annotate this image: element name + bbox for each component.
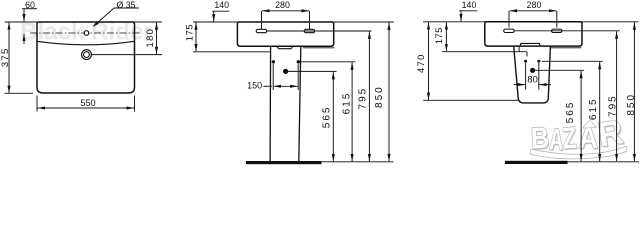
- dim 140 R: [459, 10, 477, 12]
- dim 60 down arrow: [23, 9, 25, 22]
- dim 795 M: [368, 32, 370, 162]
- dim 615 M: [351, 62, 353, 161]
- dim 550 ext lines: [37, 96, 135, 112]
- fixing dot left R: [524, 60, 527, 63]
- dim 850 M: [388, 23, 390, 162]
- basin outline L: [37, 22, 135, 93]
- dim 280 M: [262, 10, 309, 12]
- dot line ext (615): [298, 61, 355, 63]
- drain dot R: [530, 68, 535, 73]
- top rim ext line left R: [423, 21, 485, 23]
- dim 550: [38, 107, 135, 109]
- floor bar M: [246, 161, 322, 164]
- dim 375: [8, 22, 10, 93]
- dim 280 ext lines M: [262, 11, 310, 29]
- dim 80 ext lines R: [526, 63, 539, 90]
- basin body R: [485, 22, 582, 46]
- dim 150: [263, 85, 272, 87]
- bowl underside line (175 ext) R: [442, 51, 527, 53]
- bowl underside line right: [303, 47, 335, 49]
- top rim ext line right: [334, 21, 394, 23]
- svg-text:795: 795: [608, 94, 619, 117]
- drain recess R: [520, 43, 540, 46]
- svg-text:850: 850: [626, 93, 637, 116]
- fixing dot right M: [297, 60, 300, 63]
- dim 850 R: [633, 22, 635, 161]
- bowl underside right R: [550, 47, 581, 49]
- overflow ext line (180 bottom): [92, 54, 163, 56]
- basin rim curve L: [37, 41, 135, 45]
- svg-text:175: 175: [434, 27, 444, 44]
- svg-text:60: 60: [25, 0, 35, 10]
- fixing slot left R: [504, 29, 515, 32]
- top rim ext line left: [193, 21, 237, 23]
- dim 565 M: [332, 72, 334, 161]
- svg-text:B: B: [530, 120, 550, 155]
- dim 80 R: [514, 84, 525, 86]
- svg-text:565: 565: [321, 106, 332, 129]
- drain dot M: [283, 69, 288, 74]
- floor bar R: [505, 161, 568, 164]
- fixing slot right M: [304, 29, 315, 32]
- pedestal left edge: [269, 46, 272, 161]
- floor line R: [568, 161, 640, 163]
- drain notch M: [277, 46, 293, 49]
- watermark BAZAR logo: [530, 113, 627, 158]
- leader Ø35: [94, 8, 140, 26]
- svg-text:140: 140: [462, 0, 477, 10]
- svg-text:280: 280: [275, 0, 290, 10]
- dim 140 M: [212, 10, 229, 12]
- dim 470 ext bottom R: [423, 99, 518, 101]
- drain line ext (565) R: [533, 69, 585, 71]
- svg-text:80: 80: [527, 73, 537, 84]
- dim 470 R: [428, 22, 430, 100]
- slot line ext (795) R: [514, 30, 620, 32]
- dot line ext (615) R: [542, 60, 603, 62]
- basin body M: [237, 22, 333, 46]
- svg-text:Ø 35: Ø 35: [116, 0, 135, 10]
- dim 60 line: [22, 8, 37, 10]
- bowl underside line (175 ext): [193, 51, 270, 53]
- svg-text:Z: Z: [561, 121, 577, 156]
- svg-text:615: 615: [342, 92, 353, 115]
- semiped step lines R: [519, 46, 527, 56]
- ext line top right (180): [135, 21, 163, 23]
- svg-text:150: 150: [247, 80, 262, 90]
- dim 150 ext lines: [273, 64, 298, 90]
- fixing dot left M: [272, 60, 275, 63]
- centerline (dash-dot): [30, 32, 141, 34]
- dim 615 R: [599, 62, 601, 162]
- svg-text:470: 470: [415, 53, 426, 73]
- fixing slot right R: [552, 29, 563, 32]
- ext line bottom left (375): [5, 92, 34, 94]
- top rim ext line right R: [582, 21, 638, 23]
- dim 565 R: [580, 71, 582, 162]
- svg-text:550: 550: [80, 98, 95, 108]
- svg-text:180: 180: [144, 28, 155, 48]
- svg-text:850: 850: [374, 85, 385, 108]
- semi pedestal R: [514, 46, 551, 103]
- floor line M: [322, 161, 394, 163]
- svg-text:140: 140: [214, 0, 229, 10]
- ext line top left (375): [5, 21, 38, 23]
- svg-text:565: 565: [565, 101, 576, 124]
- dim 175 M: [195, 22, 197, 51]
- svg-text:280: 280: [527, 0, 542, 10]
- pedestal right edge: [299, 46, 301, 161]
- svg-text:175: 175: [184, 24, 194, 41]
- svg-text:615: 615: [588, 97, 599, 120]
- fixing slot left M: [256, 29, 267, 32]
- svg-text:795: 795: [357, 87, 368, 110]
- dim 180: [156, 22, 158, 54]
- slot line ext (795): [267, 30, 372, 32]
- dim 795 R: [616, 31, 618, 161]
- faucet hole circle: [84, 31, 89, 36]
- dim 175 R: [445, 22, 447, 51]
- fixing dot right R: [537, 60, 540, 63]
- dim 280 ext lines R: [509, 11, 557, 28]
- svg-text:375: 375: [0, 47, 10, 67]
- drain line ext (565): [286, 70, 337, 72]
- overflow hole: [82, 50, 92, 60]
- dim 60 up arrow: [23, 34, 25, 44]
- dim 280 R: [510, 10, 557, 12]
